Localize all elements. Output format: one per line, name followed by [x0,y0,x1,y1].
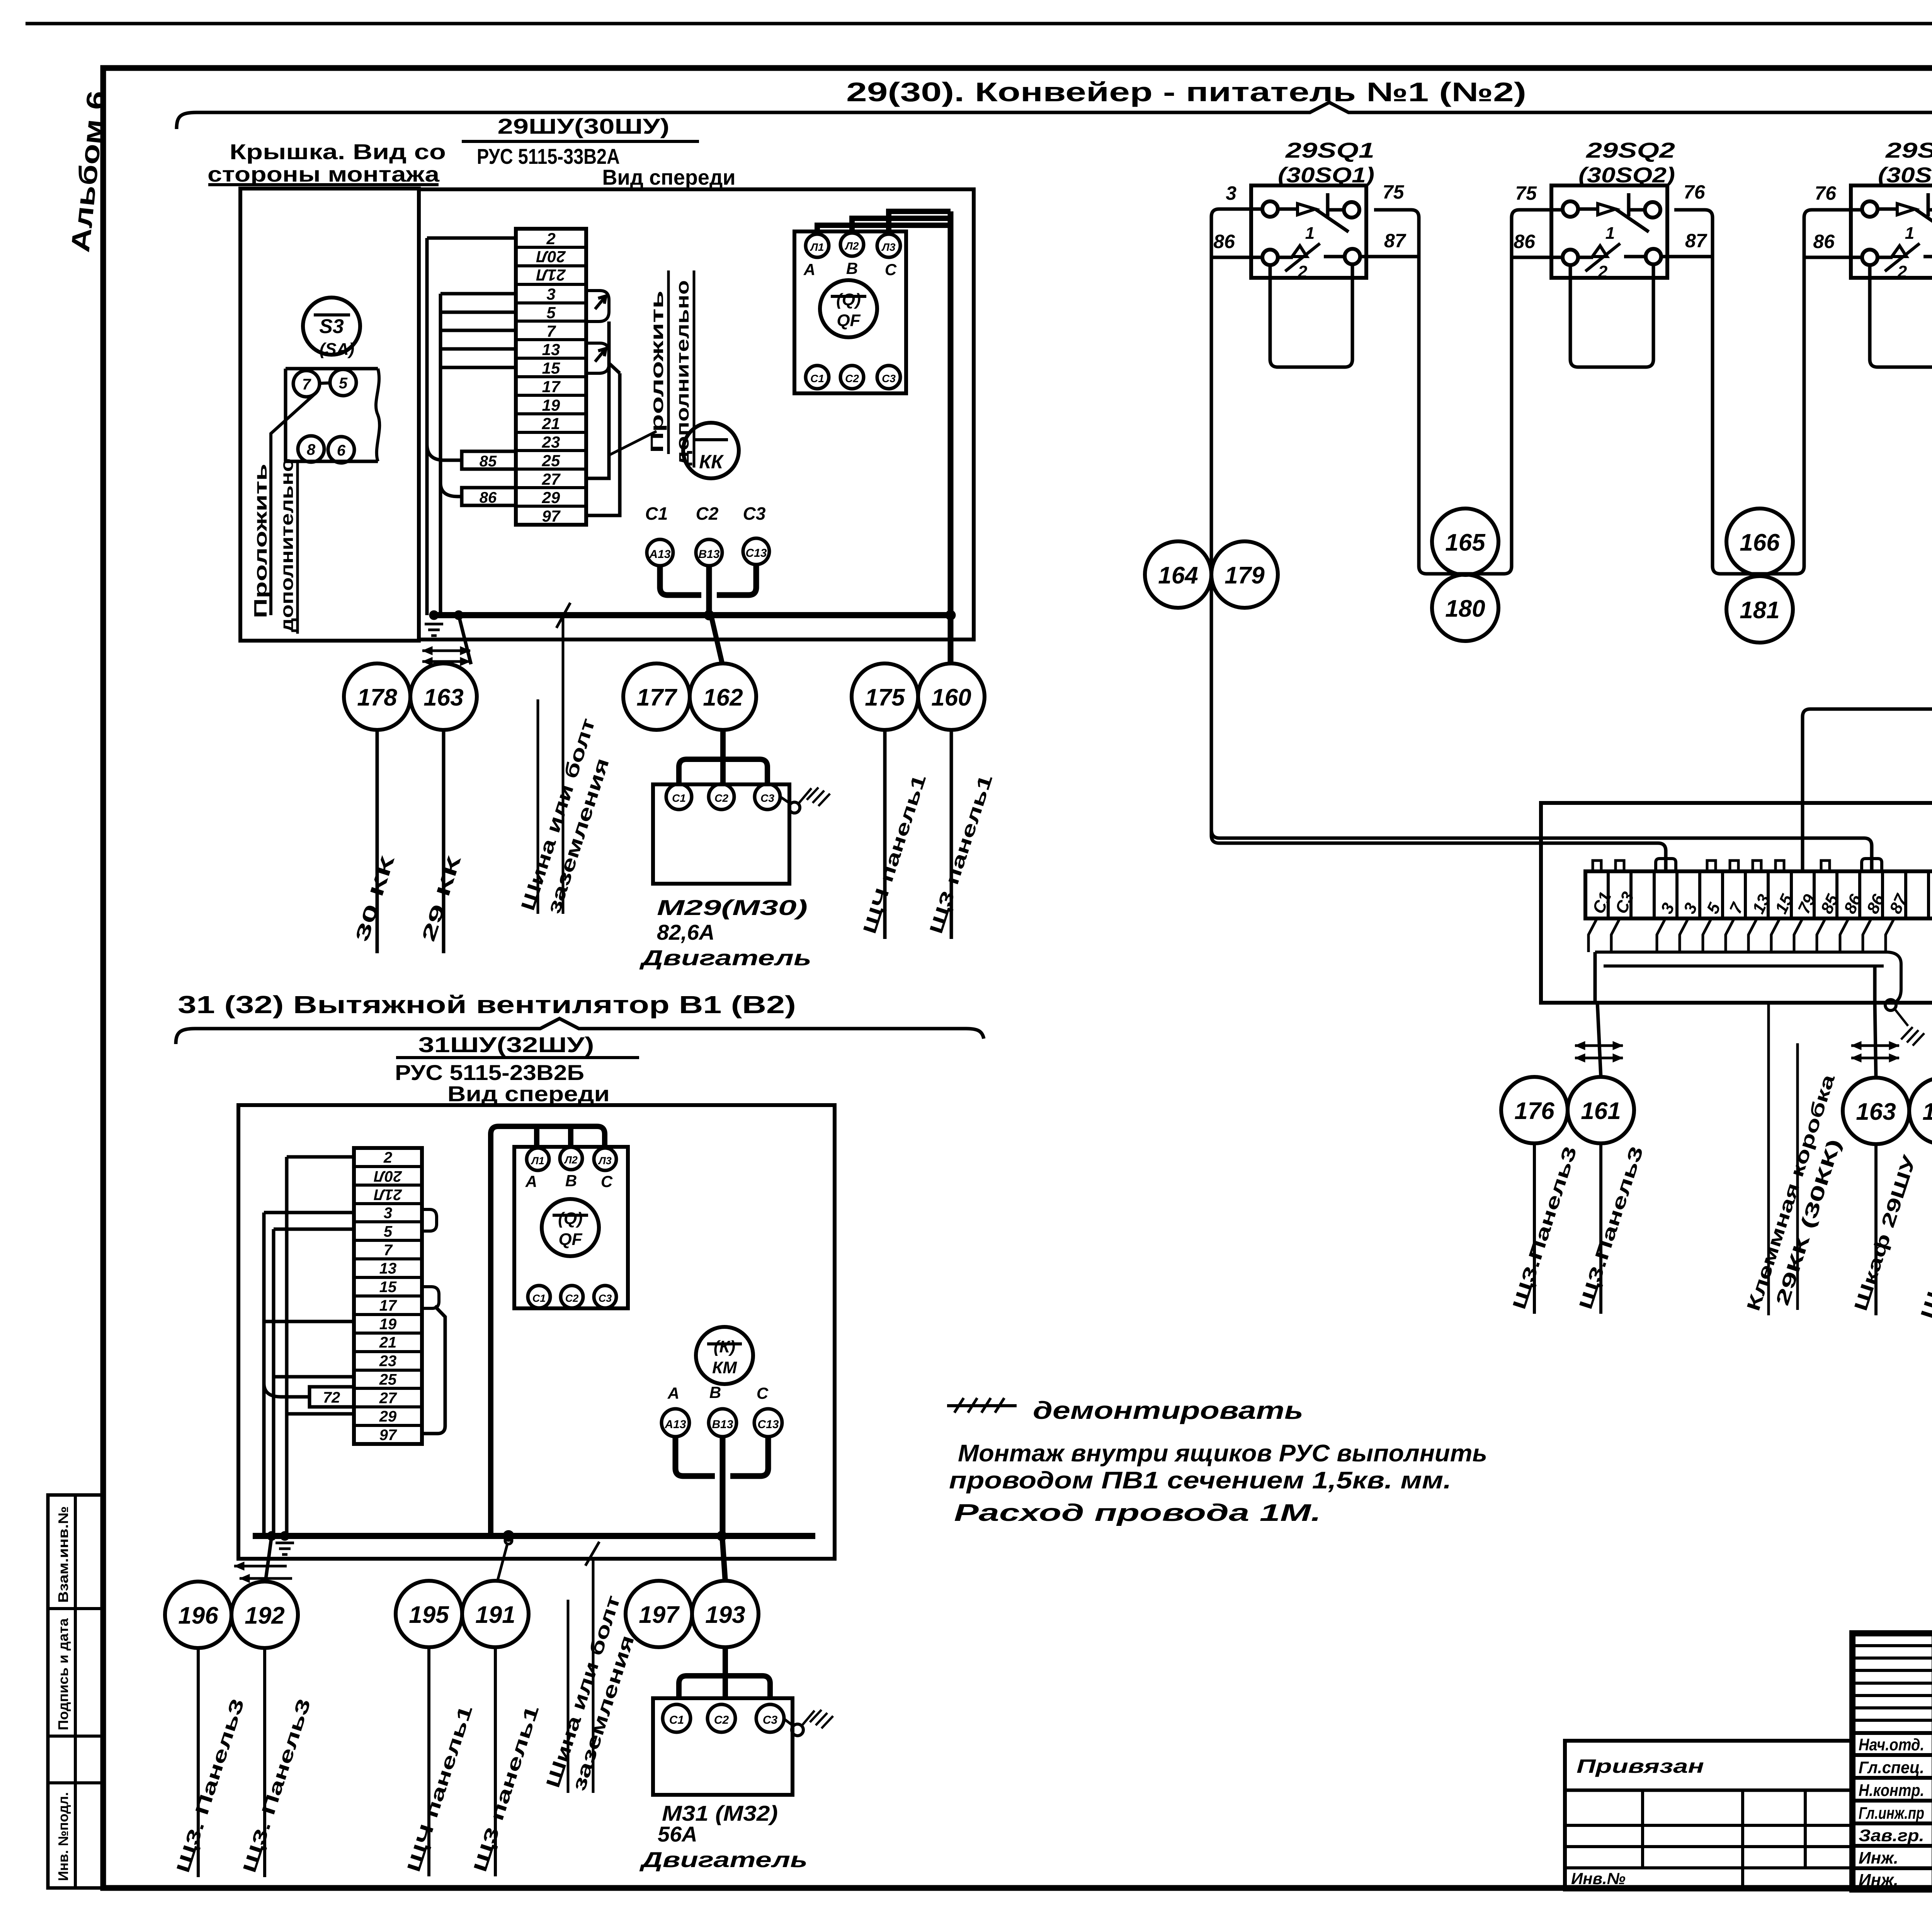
wire row25 stub 31 [274,1375,354,1379]
svg-text:А13: А13 [649,548,670,561]
wire row13 stub [440,347,516,351]
svg-text:23: 23 [379,1353,397,1370]
wire bus to tag 163 [459,615,471,664]
wire 29КК [442,730,446,953]
КК arch tab cell 86 [1862,859,1882,871]
svg-text:3: 3 [546,285,555,303]
leader Шина line1 (31) [567,1600,570,1793]
demount arrows 163b [1851,1044,1899,1047]
wire row3 stub [440,292,516,296]
svg-text:QF: QF [837,311,861,330]
tag circle 197 [626,1581,692,1647]
svg-text:86: 86 [1514,231,1536,252]
svg-text:(К): (К) [714,1337,735,1356]
tag circle 165 [1432,509,1498,575]
wire SQ1 input 3 [1211,209,1666,872]
svg-text:дополнительно: дополнительно [672,280,692,466]
wire А13 down [660,566,701,595]
terminal Л1 (31) [527,1148,549,1170]
svg-text:QF: QF [558,1230,582,1249]
wire row2 stub 31 [287,1155,354,1159]
terminal C2b [840,366,864,389]
svg-text:29SQ1: 29SQ1 [1285,138,1374,162]
label Щ3 панель1 (191) [470,1647,543,1876]
svg-text:С: С [885,260,897,279]
wire right loop to 97 [586,363,620,515]
terminal В13 (31) [709,1409,736,1437]
svg-text:(30SQ2): (30SQ2) [1578,163,1675,187]
switch S3(SA) [303,298,360,359]
wire С13 down [717,565,756,595]
svg-text:Крышка. Вид со: Крышка. Вид со [230,139,446,164]
tag circle 161 [1568,1077,1634,1143]
29SQ3 contact 1 [1878,193,1932,243]
svg-text:56А: 56А [658,1822,697,1846]
29SQ2 contact 1 [1578,193,1649,243]
tag circle 195 [396,1581,462,1647]
motor terminal C1 [666,784,692,810]
svg-text:165: 165 [1445,529,1486,556]
svg-text:191: 191 [475,1602,515,1628]
motor terminal C3 (31) [756,1704,784,1732]
ground bus 29ШУ [430,612,951,618]
limit switch 29SQ3 label [1878,138,1932,187]
wire SQ1 86 rail [1211,256,1263,259]
terminal C1b [806,366,829,389]
label Щ3.Панель3 (161) [1575,1143,1647,1314]
wire row19 stub 31 [264,1320,354,1323]
svg-text:87: 87 [1384,230,1406,252]
wire bus A left 31 [262,1213,266,1536]
terminal C3 (31) [594,1286,616,1308]
wire bus to tag 192 [265,1536,272,1582]
svg-text:161: 161 [1581,1098,1621,1124]
svg-text:1: 1 [1905,224,1914,243]
svg-text:КМ: КМ [712,1358,737,1377]
tag circle 163b [1843,1078,1909,1144]
svg-text:163: 163 [423,684,463,711]
29SQ1 terminal BL [1262,250,1278,265]
header fraction line 31a [396,1056,639,1059]
svg-text:2: 2 [1298,262,1308,281]
svg-text:Л1: Л1 [810,241,824,253]
svg-text:В13: В13 [698,548,719,561]
jumper rows 3-5 [586,291,609,321]
svg-text:29: 29 [379,1408,397,1425]
wire bus to tag 191 [497,1537,512,1582]
svg-text:стороны монтажа: стороны монтажа [207,162,440,186]
svg-text:Расход провода 1М.: Расход провода 1М. [954,1500,1321,1526]
motor terminal C1 (31) [663,1704,690,1732]
svg-text:86: 86 [1813,231,1835,252]
signature row Инж. Лазебник [1859,1845,1932,1867]
terminal В13 [696,539,722,566]
svg-text:С1: С1 [532,1293,546,1304]
wire row29 stub 31 [287,1412,354,1416]
label 29КК(30КК) [1772,1043,1845,1310]
terminal А13 (31) [662,1409,689,1437]
svg-text:15: 15 [379,1279,397,1296]
terminal 8 [298,436,324,462]
svg-text:В: В [709,1383,721,1401]
svg-text:13: 13 [379,1260,397,1277]
svg-text:17: 17 [542,378,561,396]
terminal C3b [877,366,900,389]
label Клеммная коробка [1743,1005,1839,1315]
svg-text:175: 175 [865,684,905,711]
terminal А13 [647,539,673,566]
svg-text:А: А [667,1384,679,1402]
svg-text:179: 179 [1225,562,1265,589]
svg-text:31 (32) Вытяжной вентилятор В1: 31 (32) Вытяжной вентилятор В1 (В2) [178,991,796,1019]
wire В13 down to bus (31) [720,1437,726,1536]
svg-text:7: 7 [546,322,556,340]
tag circle 191 [462,1581,529,1647]
КК terminal tabs [1593,861,1601,871]
wire bus to tag 193 [722,1536,725,1582]
svg-text:Л1: Л1 [531,1155,544,1167]
junction dot bus 163 [454,611,463,620]
wire phase bundle 31 [491,1126,605,1536]
svg-text:Подпись и дата: Подпись и дата [55,1618,71,1730]
svg-text:М29(М30): М29(М30) [657,895,808,920]
wire А13 down (31) [675,1437,715,1476]
svg-text:(SA): (SA) [320,340,354,359]
signature row Гл.инж.пр Юферов [1859,1801,1932,1823]
sheet top edge line [26,22,1932,26]
open circle junction [504,1532,513,1540]
jumper rows 15-17 (31) [422,1287,439,1308]
note дополнительно (cabinet) [672,270,694,468]
tag circle 178b [1909,1078,1932,1144]
svg-text:Проложить: Проложить [647,291,667,453]
svg-text:29(30). Конвейер - питатель: 29(30). Конвейер - питатель №1 (№2) [846,77,1526,107]
breaker QF (31) [542,1199,599,1256]
29SQ1 contact 2 [1278,243,1345,281]
wire SQ2 86 rail [1512,256,1563,259]
svg-text:С2: С2 [714,1714,729,1726]
svg-text:20Л: 20Л [536,248,566,266]
svg-text:А: А [525,1172,537,1190]
svg-text:86: 86 [480,489,497,506]
signature row Н.контр. Нестеренко [1859,1778,1932,1800]
svg-text:В: В [565,1172,577,1190]
svg-text:176: 176 [1514,1098,1554,1124]
wire С13 down (31) [730,1437,768,1476]
breaker QF [820,280,877,337]
terminal box 29КК [1541,803,1932,1003]
tag circle 175 [852,663,918,730]
svg-text:23: 23 [542,433,560,451]
svg-text:Привязан: Привязан [1577,1755,1704,1777]
wire motor feed 31 [723,1647,728,1673]
svg-text:С1: С1 [810,372,824,384]
svg-text:Монтаж внутри ящиков РУС в: Монтаж внутри ящиков РУС выполнить [958,1440,1487,1467]
29SQ1 lower loop wire [1270,264,1352,367]
wire bus A left [425,238,429,615]
29SQ1 terminal TR [1344,202,1359,218]
svg-text:Вид спереди: Вид спереди [447,1082,610,1106]
terminal Л2 [840,233,864,256]
svg-text:Л2: Л2 [845,240,859,252]
terminal Л2 (31) [560,1147,582,1170]
svg-text:А: А [803,260,815,279]
wire SQ1 87 rail [1360,255,1419,259]
ground symbol on bus 31 [276,1542,294,1544]
svg-text:27: 27 [379,1389,397,1406]
29SQ2 terminal TL [1563,201,1578,217]
apparatus box QF 31 [514,1147,628,1308]
wire В13 down to bus [706,566,712,617]
svg-text:Двигатель: Двигатель [639,946,811,970]
wire row5 stub [440,311,516,314]
wire to 86 [440,483,462,497]
tag circle 193 [692,1581,759,1647]
svg-text:76: 76 [1815,182,1837,204]
terminal 5 [330,369,356,396]
svg-text:29SQ2: 29SQ2 [1586,138,1675,162]
svg-text:21: 21 [379,1334,397,1351]
limit switch 29SQ2 box [1551,185,1667,278]
junction dot right [946,610,956,620]
motor box M29 [653,784,789,884]
tag circle 177 [623,663,690,730]
svg-text:166: 166 [1740,529,1780,556]
svg-text:19: 19 [379,1316,397,1333]
29SQ2 terminal TR [1645,202,1660,218]
wire 7-5 link [320,383,330,383]
leader Шина line2 [562,617,565,914]
wire phase L3 [889,211,951,234]
ground bus 31ШУ [253,1533,815,1539]
label Щ3 панель1 (160) [926,730,997,939]
motor ground [780,787,830,813]
tag circle 166 [1726,509,1793,575]
svg-text:180: 180 [1445,595,1485,622]
wire SQ3 86 rail [1804,256,1862,259]
tag circle 181 [1726,576,1793,643]
29SQ3 terminal TL [1862,201,1878,217]
svg-text:195: 195 [409,1602,449,1628]
tag circle 162 [690,663,756,730]
КК ground [1885,1000,1924,1046]
svg-text:21: 21 [542,415,560,433]
svg-text:С3: С3 [882,372,896,384]
wire 30КК [376,730,379,953]
svg-text:С3: С3 [760,792,774,804]
svg-text:С: С [601,1172,613,1190]
junction dot KM [717,1531,727,1541]
wire phase L1 [817,225,951,234]
29SQ2 contact 2 [1578,243,1646,281]
КК fan-out wires [1588,918,1597,952]
wire row5 stub 31 [274,1228,354,1231]
svg-text:(Q): (Q) [836,290,861,309]
section 1 brace [177,102,1932,129]
legend demount symbol [947,1398,1017,1413]
svg-text:С1: С1 [672,792,686,804]
tag circle 196 [165,1582,231,1648]
wire to 85 [427,444,462,460]
section 2 brace [176,1019,984,1044]
terminal 7 [293,371,320,397]
wire row3 stub 31 [264,1211,354,1214]
svg-text:2: 2 [1598,262,1608,281]
svg-text:2: 2 [546,230,555,248]
КК drop left [1594,952,1597,1003]
svg-text:Инв. №подл.: Инв. №подл. [55,1792,71,1881]
29SQ1 contact 1 [1278,193,1349,243]
svg-text:13: 13 [542,340,560,359]
limit switch 29SQ1 box [1251,185,1366,278]
svg-text:3: 3 [1226,182,1236,204]
svg-text:Нач.отд.: Нач.отд. [1859,1735,1924,1754]
svg-text:181: 181 [1740,597,1779,624]
svg-text:Инж.: Инж. [1859,1871,1898,1889]
svg-text:С1: С1 [645,503,668,524]
note Проложить (cabinet) [647,270,668,454]
demount arrows 161 [1575,1044,1623,1047]
terminal Л3 (31) [594,1148,616,1170]
29SQ1 terminal TL [1262,201,1278,217]
attachment box Привязан [1565,1741,1852,1889]
title block grid [1852,1633,1932,1889]
wire SQ2 87 rail [1661,255,1713,259]
svg-text:Гл.инж.пр: Гл.инж.пр [1859,1804,1924,1823]
cover header underline [208,183,439,186]
svg-text:178: 178 [1922,1099,1932,1125]
relay KM [696,1327,753,1384]
svg-text:29SQ3: 29SQ3 [1885,138,1932,162]
svg-text:5: 5 [339,375,348,392]
svg-text:97: 97 [542,507,561,525]
ground symbol on bus [425,623,443,626]
demount arrows 192 [234,1562,292,1583]
terminal Л3 [877,234,900,257]
svg-text:5: 5 [384,1223,393,1240]
wire row7 stub [440,329,516,332]
29SQ1 terminal BR [1345,249,1360,264]
wire to 72 box [264,1383,310,1397]
svg-text:С13: С13 [757,1418,779,1431]
terminal box 85 [462,451,516,470]
svg-text:1: 1 [1305,224,1315,243]
svg-text:РУС 5115-23В2Б: РУС 5115-23В2Б [395,1060,584,1085]
svg-text:С3: С3 [743,503,766,524]
wire motor split 31 [679,1676,770,1699]
signature row Гл.спец. Нестеренко [1859,1755,1932,1777]
svg-text:31ШУ(32ШУ): 31ШУ(32ШУ) [418,1032,594,1057]
terminal strip 29КК [1585,871,1932,918]
svg-text:21Л: 21Л [374,1186,402,1203]
apparatus box QF [794,231,906,393]
wire loop SQ1-SQ2 [1374,210,1563,574]
svg-text:20Л: 20Л [374,1168,402,1185]
limit switch 29SQ3 box [1851,185,1932,278]
svg-text:3: 3 [384,1205,392,1222]
leader to jumpers [610,431,656,455]
label ЩЧ панель1 (175) [859,730,930,939]
svg-text:164: 164 [1158,562,1198,589]
svg-text:76: 76 [1684,181,1706,203]
leader from terminal 7 [271,395,314,615]
svg-text:С: С [757,1384,769,1402]
svg-text:178: 178 [357,684,397,711]
29SQ2 terminal BR [1646,249,1661,264]
svg-text:проводом ПВ1 сечением 1,5кв: проводом ПВ1 сечением 1,5кв. мм. [949,1467,1451,1494]
leader Шина line1 [537,699,539,914]
terminal box 86 [462,488,516,506]
signature row Зав.гр. Филишкевич [1859,1823,1932,1845]
wire motor feed [720,730,726,762]
terminal С13 (31) [754,1409,782,1437]
terminal group 7-5-8-6 box [286,369,379,461]
tag circle 176 [1501,1077,1568,1143]
wire phase riser 2 [534,1126,539,1148]
wire motor split [679,759,767,785]
tag circle 164 [1145,541,1211,608]
svg-text:160: 160 [931,684,971,711]
label ЩЧ панель1 (195) [403,1647,476,1876]
29SQ3 lower loop wire [1870,264,1932,367]
jumper rows 13-15 [586,343,609,373]
wire row2 stub [427,236,516,240]
svg-text:Гл.спец.: Гл.спец. [1859,1758,1924,1777]
svg-text:А13: А13 [664,1418,686,1431]
signature row Инж. Баженова [1859,1867,1932,1889]
motor box M31 [653,1698,793,1795]
svg-text:87: 87 [1685,230,1708,252]
terminal Л1 [806,234,829,257]
svg-text:163: 163 [1856,1099,1896,1125]
tag circle 178 [344,663,410,730]
bus slash mark [556,603,570,628]
label Шкаф 30ШУ [1917,1144,1932,1323]
svg-text:15: 15 [542,359,560,377]
КК bundle line 2 [1604,964,1884,968]
signature row Нач.отд. Никитин [1859,1732,1932,1754]
motor terminal C3 [755,784,780,810]
svg-text:5: 5 [546,303,556,321]
svg-text:6: 6 [337,442,346,459]
motor terminal C2 (31) [707,1704,735,1732]
svg-text:21Л: 21Л [536,266,566,284]
svg-text:19: 19 [542,396,560,414]
svg-text:(Q): (Q) [558,1209,583,1228]
svg-text:193: 193 [705,1602,745,1628]
wire phase riser 1 [568,1126,573,1147]
wire phase drop right [948,211,954,663]
terminal box 72 [310,1387,354,1407]
svg-text:Вид спереди: Вид спереди [602,165,736,189]
svg-text:25: 25 [379,1371,397,1388]
limit switch 29SQ1 label [1278,138,1374,187]
terminal С13 [743,538,769,565]
КК drop right [1873,966,1877,1003]
svg-text:КК: КК [699,451,724,473]
wire КК to 161 [1597,1003,1601,1077]
cabinet box 31ШУ front [238,1105,835,1559]
svg-text:29: 29 [542,488,560,507]
svg-text:196: 196 [178,1602,218,1629]
svg-text:75: 75 [1515,182,1537,204]
svg-text:25: 25 [542,451,560,469]
svg-text:29ШУ(30ШУ): 29ШУ(30ШУ) [498,114,670,138]
svg-text:С1: С1 [669,1714,684,1726]
wire bus B left 31 [272,1229,276,1536]
demount arrows 163 [422,650,470,652]
jumper rows 3-5 (31) [422,1209,437,1231]
